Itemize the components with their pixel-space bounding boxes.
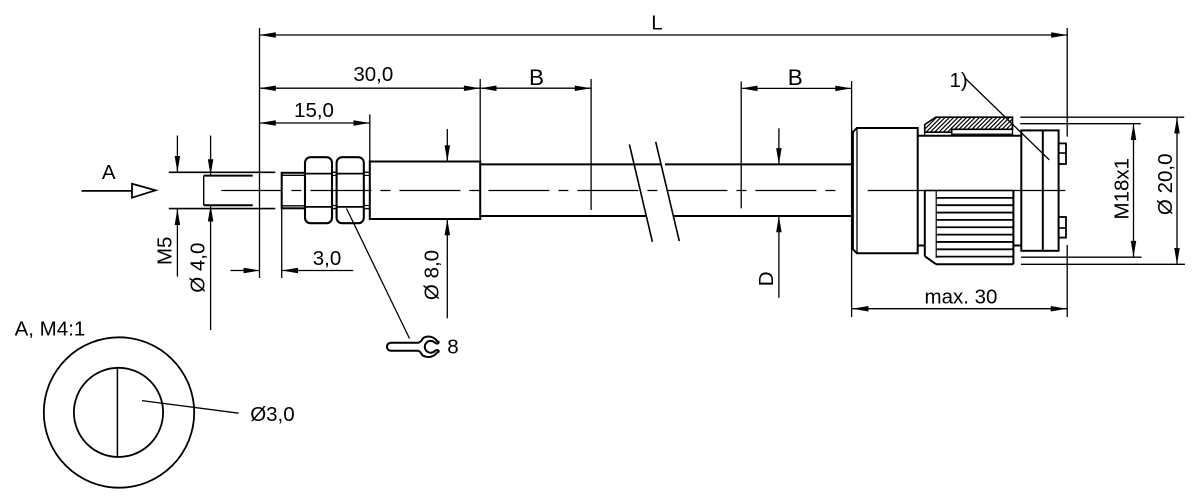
- svg-text:30,0: 30,0: [353, 63, 393, 86]
- svg-text:M5: M5: [154, 237, 177, 265]
- svg-text:Ø3,0: Ø3,0: [250, 403, 294, 426]
- svg-text:A, M4:1: A, M4:1: [15, 317, 86, 340]
- svg-text:Ø 8,0: Ø 8,0: [421, 250, 444, 300]
- svg-text:B: B: [529, 65, 544, 90]
- svg-text:Ø 4,0: Ø 4,0: [187, 243, 210, 293]
- svg-text:max. 30: max. 30: [925, 286, 998, 309]
- svg-text:Ø 20,0: Ø 20,0: [1154, 154, 1177, 216]
- svg-text:8: 8: [447, 336, 458, 359]
- svg-text:L: L: [651, 12, 662, 35]
- svg-text:B: B: [788, 65, 803, 90]
- svg-text:1): 1): [950, 69, 968, 92]
- svg-text:A: A: [102, 161, 116, 184]
- svg-text:3,0: 3,0: [313, 247, 342, 270]
- svg-text:D: D: [755, 271, 778, 286]
- svg-text:15,0: 15,0: [294, 99, 334, 122]
- svg-text:M18x1: M18x1: [1111, 158, 1134, 220]
